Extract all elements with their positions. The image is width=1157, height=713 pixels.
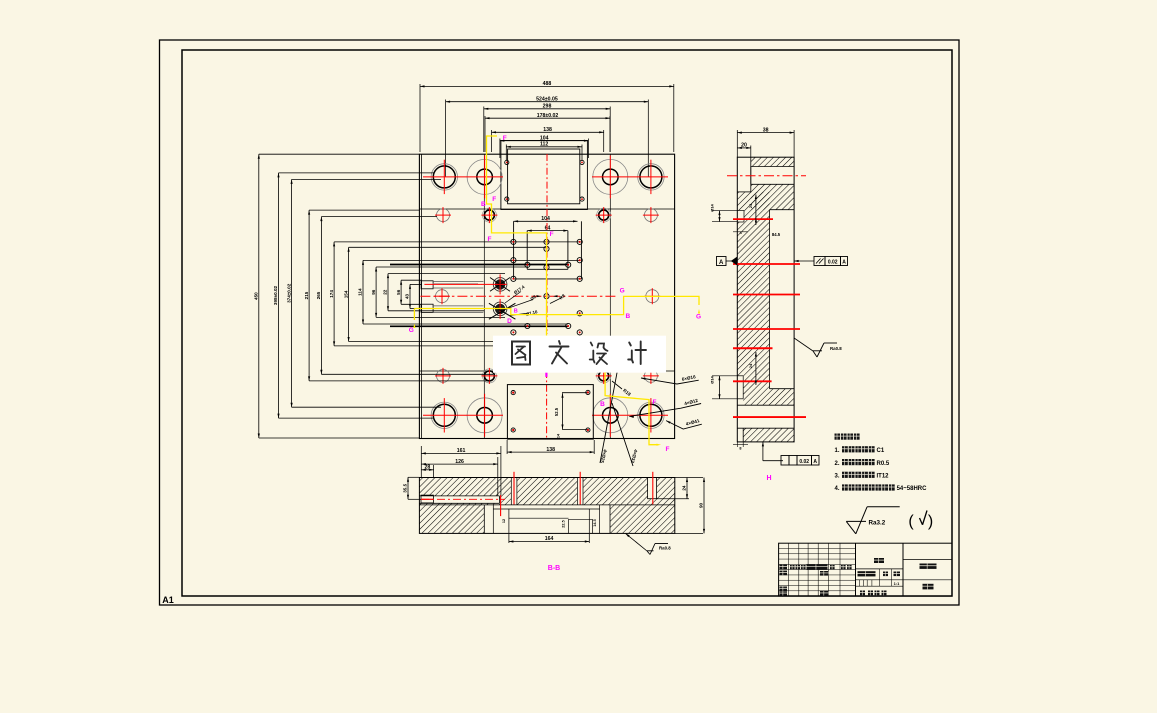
svg-text:174: 174 xyxy=(329,290,334,298)
svg-text:C1: C1 xyxy=(877,448,885,454)
svg-text:0.02: 0.02 xyxy=(799,459,809,465)
svg-text:H: H xyxy=(766,475,771,482)
svg-text:52.5: 52.5 xyxy=(554,407,559,416)
svg-text:G: G xyxy=(409,327,414,334)
svg-text:54~58HRC: 54~58HRC xyxy=(897,486,928,492)
svg-text:12: 12 xyxy=(502,519,506,523)
svg-text:B: B xyxy=(625,313,630,320)
svg-text:D: D xyxy=(507,318,512,325)
svg-text:43: 43 xyxy=(405,293,410,299)
svg-text:B: B xyxy=(481,201,486,208)
svg-text:138: 138 xyxy=(543,127,552,133)
svg-text:IT12: IT12 xyxy=(877,474,890,480)
svg-text:24: 24 xyxy=(682,485,687,491)
svg-text:G: G xyxy=(696,314,701,321)
svg-text:F: F xyxy=(503,135,507,142)
svg-text:22: 22 xyxy=(383,289,388,295)
svg-text:Ø14: Ø14 xyxy=(710,375,715,383)
svg-text:28: 28 xyxy=(425,465,431,471)
svg-text:24: 24 xyxy=(748,363,753,368)
svg-text:84.5: 84.5 xyxy=(772,232,781,237)
svg-text:R0.5: R0.5 xyxy=(877,461,890,467)
svg-text:8: 8 xyxy=(739,447,741,451)
svg-text:F: F xyxy=(550,231,554,238)
svg-text:B: B xyxy=(600,401,605,408)
svg-text:178±0.02: 178±0.02 xyxy=(537,113,559,119)
svg-text:14.5: 14.5 xyxy=(593,519,597,526)
svg-text:96: 96 xyxy=(371,289,376,295)
svg-text:2.: 2. xyxy=(835,461,840,467)
svg-text:161: 161 xyxy=(457,448,466,454)
svg-text:1.: 1. xyxy=(835,448,840,454)
svg-text:A: A xyxy=(813,459,817,465)
svg-text:0.02: 0.02 xyxy=(828,260,838,266)
svg-text:398±0.02: 398±0.02 xyxy=(273,285,278,305)
svg-text:104: 104 xyxy=(541,216,550,222)
svg-text:114: 114 xyxy=(358,288,363,296)
svg-text:A: A xyxy=(842,260,846,266)
svg-text:Ra0.8: Ra0.8 xyxy=(659,546,671,551)
svg-text:298: 298 xyxy=(543,104,552,110)
svg-text:20: 20 xyxy=(741,143,747,149)
svg-text:F: F xyxy=(666,446,670,453)
svg-text:G: G xyxy=(620,288,625,295)
svg-text:90: 90 xyxy=(699,502,704,508)
svg-text:Ra3.2: Ra3.2 xyxy=(869,520,886,527)
svg-text:35.5: 35.5 xyxy=(403,483,408,492)
svg-text:B-B: B-B xyxy=(548,565,560,572)
svg-text:112: 112 xyxy=(540,142,548,148)
svg-text:126: 126 xyxy=(455,459,464,465)
svg-text:164: 164 xyxy=(545,536,554,542)
svg-text:A1: A1 xyxy=(162,595,174,605)
svg-text:215: 215 xyxy=(304,291,309,299)
svg-text:3.: 3. xyxy=(835,474,840,480)
svg-text:4.: 4. xyxy=(835,486,840,492)
svg-text:F: F xyxy=(492,196,496,203)
svg-text:265: 265 xyxy=(316,291,321,299)
svg-text:): ) xyxy=(928,513,933,530)
svg-text:38: 38 xyxy=(763,127,769,133)
svg-text:F: F xyxy=(653,399,657,406)
svg-text:22.5: 22.5 xyxy=(562,520,566,527)
svg-text:24: 24 xyxy=(748,203,753,208)
svg-text:F: F xyxy=(488,236,492,243)
svg-text:A: A xyxy=(719,260,724,266)
svg-text:154: 154 xyxy=(343,290,348,298)
svg-text:450: 450 xyxy=(254,292,259,300)
svg-text:488: 488 xyxy=(543,81,552,87)
svg-text:(: ( xyxy=(908,513,914,530)
svg-text:1:1: 1:1 xyxy=(894,581,901,586)
svg-text:Ra0.8: Ra0.8 xyxy=(830,346,842,351)
svg-text:138: 138 xyxy=(546,447,555,453)
svg-text:56: 56 xyxy=(396,289,401,295)
svg-text:524±0.05: 524±0.05 xyxy=(536,96,558,102)
svg-text:B: B xyxy=(514,309,518,315)
svg-text:374±0.02: 374±0.02 xyxy=(286,283,291,303)
